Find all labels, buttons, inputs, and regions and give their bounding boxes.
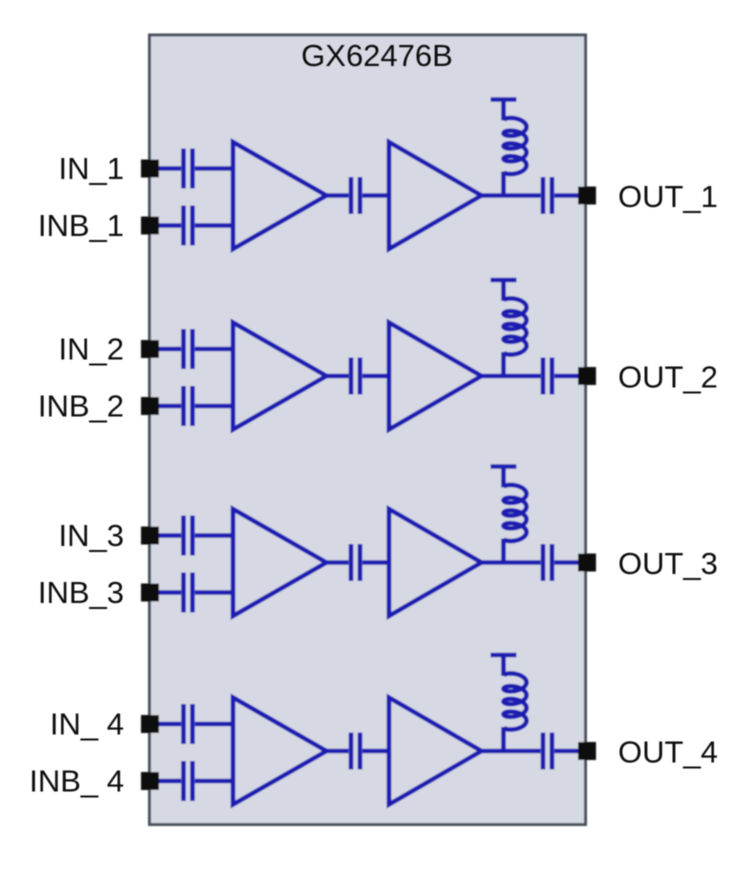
svg-text:IN_1: IN_1	[59, 151, 124, 186]
svg-text:INB_1: INB_1	[38, 208, 124, 243]
svg-text:OUT_1: OUT_1	[618, 179, 718, 214]
svg-text:INB_ 4: INB_ 4	[29, 764, 124, 799]
svg-text:INB_3: INB_3	[38, 575, 124, 610]
svg-text:IN_3: IN_3	[59, 518, 124, 553]
svg-text:IN_ 4: IN_ 4	[50, 707, 124, 742]
svg-text:OUT_3: OUT_3	[618, 546, 718, 581]
svg-text:INB_2: INB_2	[38, 389, 124, 424]
svg-text:OUT_4: OUT_4	[618, 735, 718, 770]
svg-text:OUT_2: OUT_2	[618, 360, 718, 395]
svg-text:GX62476B: GX62476B	[301, 38, 453, 73]
svg-text:IN_2: IN_2	[59, 332, 124, 367]
